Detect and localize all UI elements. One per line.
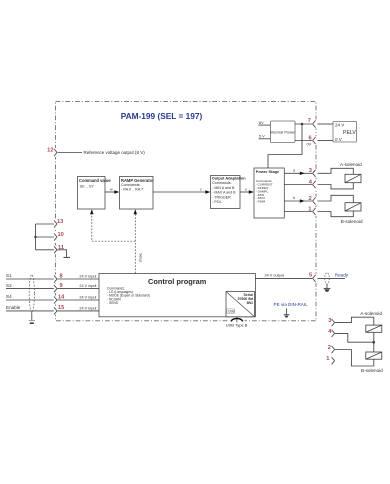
svg-text:USB: USB xyxy=(228,310,235,314)
svg-text:24 V input: 24 V input xyxy=(79,275,97,279)
pin 1 xyxy=(308,206,315,215)
input shield ground xyxy=(29,313,35,324)
svg-text:12: 12 xyxy=(47,148,53,154)
wire Ready output xyxy=(318,273,349,279)
svg-text:3: 3 xyxy=(328,318,331,324)
svg-text:Commands:: Commands: xyxy=(212,181,231,185)
svg-text:B-solenoid: B-solenoid xyxy=(341,219,363,224)
input wire Enable xyxy=(6,305,99,311)
wire reference voltage pin 12 xyxy=(58,150,146,155)
wire pin 6 to PELV box xyxy=(318,140,334,142)
A-solenoid coil xyxy=(345,174,361,182)
dashed config line to RAMP xyxy=(134,209,143,273)
svg-text:c: c xyxy=(200,187,202,191)
external jumper bracket pins 13-10-11 xyxy=(36,224,54,250)
pin 13 xyxy=(54,219,63,228)
pin 4 xyxy=(309,179,316,188)
svg-text:Output Adaptation: Output Adaptation xyxy=(212,175,247,180)
svg-text:15: 15 xyxy=(58,305,64,311)
wire command value to ramp xyxy=(105,187,119,193)
block Control program xyxy=(99,274,255,317)
junction dot 24V xyxy=(301,123,304,126)
wire loop to A-solenoid top xyxy=(318,168,354,174)
wire internal power to pin 6 xyxy=(295,141,312,147)
block Command value xyxy=(78,177,112,210)
svg-text:0 V: 0 V xyxy=(335,137,342,142)
dashed config branch to Command value xyxy=(90,209,135,241)
pin 11 xyxy=(54,245,64,254)
svg-text:0V: 0V xyxy=(307,142,312,146)
svg-text:- RA:0 .. RA:7: - RA:0 .. RA:7 xyxy=(121,187,143,191)
alt A-solenoid coil xyxy=(366,325,382,332)
pin 7 xyxy=(308,118,316,128)
wire power stage return B- to pin 1 xyxy=(284,211,312,213)
svg-text:PAM-199 (SEL = 197): PAM-199 (SEL = 197) xyxy=(121,111,203,121)
wire internal power to pin 7 xyxy=(295,123,312,125)
svg-text:Command value: Command value xyxy=(79,178,111,183)
wire ramp to output adaptation xyxy=(153,187,210,193)
svg-text:3: 3 xyxy=(309,168,312,174)
svg-text:- MAX A and B: - MAX A and B xyxy=(212,191,236,195)
block Output Adaptation xyxy=(211,175,247,208)
svg-text:Enable: Enable xyxy=(6,305,21,310)
wire pin 7 to PELV box xyxy=(318,123,334,125)
svg-text:- PWM: - PWM xyxy=(256,200,266,204)
input wire S2 xyxy=(6,283,99,289)
block Power Stage xyxy=(254,168,284,218)
alt B-solenoid coil xyxy=(366,352,382,359)
pin 9 xyxy=(54,283,63,292)
USB serial sub-block xyxy=(226,292,255,317)
svg-text:- TRIGGER: - TRIGGER xyxy=(212,195,231,199)
alt junction dot xyxy=(373,341,376,344)
internal power stub 5V xyxy=(259,135,271,139)
internal power stub 8V xyxy=(259,121,271,125)
svg-text:a: a xyxy=(293,168,295,172)
alt section pin 1 unconnected xyxy=(326,356,334,364)
svg-text:S4: S4 xyxy=(6,294,12,299)
svg-text:1: 1 xyxy=(308,206,311,212)
svg-text:7: 7 xyxy=(308,118,311,124)
svg-text:14: 14 xyxy=(58,294,65,300)
svg-text:2: 2 xyxy=(328,345,331,351)
svg-text:8V: 8V xyxy=(259,121,264,125)
ready shield ellipse xyxy=(325,273,330,284)
alt section pin 4 xyxy=(328,329,334,337)
svg-text:USB Type B: USB Type B xyxy=(226,323,248,328)
pin 12 xyxy=(47,148,57,157)
svg-text:9: 9 xyxy=(60,283,63,289)
wire loop to B-solenoid top xyxy=(318,195,354,202)
svg-text:b: b xyxy=(293,196,295,200)
alt wire pin 4 to junction xyxy=(335,333,374,342)
USB cable pass-through arc xyxy=(226,317,248,328)
pin 3 xyxy=(309,168,316,177)
block RAMP Generator xyxy=(120,177,155,210)
alt wire pin 3 to A-solenoid xyxy=(335,317,374,325)
pin 11 internal ground xyxy=(57,250,70,258)
svg-text:S0 .. S7: S0 .. S7 xyxy=(80,184,95,189)
svg-text:8N1: 8N1 xyxy=(247,301,253,305)
wire power stage output B+ to pin 2 xyxy=(284,196,312,203)
B-solenoid coil xyxy=(345,203,361,211)
block PELV supply xyxy=(333,122,357,143)
ready shield ground xyxy=(324,284,331,292)
svg-text:Setup: Setup xyxy=(139,253,143,262)
svg-text:- MIN A and B: - MIN A and B xyxy=(212,186,235,190)
svg-text:8: 8 xyxy=(60,273,63,279)
wire output adaptation to power stage xyxy=(240,187,254,193)
wire loop from B-solenoid bottom xyxy=(318,211,354,217)
svg-text:24 V input: 24 V input xyxy=(79,307,97,311)
alt section pin 2 xyxy=(328,345,335,353)
svg-text:A-solenoid: A-solenoid xyxy=(340,162,362,167)
svg-text:Ready: Ready xyxy=(335,273,349,278)
pin 5 xyxy=(309,272,316,282)
svg-text:u: u xyxy=(245,187,247,191)
svg-text:24 V: 24 V xyxy=(335,122,344,127)
alt wire B bottom loop to pin 2 xyxy=(335,350,374,367)
svg-text:PELV: PELV xyxy=(343,130,356,136)
junction dot on bracket xyxy=(34,236,36,238)
svg-text:RAMP Generator: RAMP Generator xyxy=(121,178,154,183)
svg-text:A-solenoid: A-solenoid xyxy=(360,311,382,316)
PE earth symbol xyxy=(284,309,290,318)
svg-text:Reference voltage output (8 V): Reference voltage output (8 V) xyxy=(84,150,146,155)
pin 10 xyxy=(54,232,64,241)
title PAM-199 xyxy=(121,111,203,121)
pin 2 xyxy=(309,196,316,205)
svg-text:Internal Power: Internal Power xyxy=(270,129,296,134)
svg-text:PE via DIN-RAIL: PE via DIN-RAIL xyxy=(274,302,309,307)
pin 14 xyxy=(54,294,65,303)
pin gap masks on frame xyxy=(53,120,319,324)
svg-text:Power Stage: Power Stage xyxy=(256,169,280,174)
input wire S1 xyxy=(6,273,99,279)
svg-text:S2: S2 xyxy=(6,283,12,288)
svg-text:- SENS: - SENS xyxy=(107,301,119,305)
svg-text:5 V: 5 V xyxy=(259,135,265,139)
svg-text:5: 5 xyxy=(309,272,312,278)
svg-text:10: 10 xyxy=(58,232,64,238)
svg-text:Control program: Control program xyxy=(148,277,207,286)
block Internal Power xyxy=(270,121,296,143)
svg-text:1: 1 xyxy=(326,356,329,362)
svg-text:w: w xyxy=(110,187,113,191)
wire 24V feed down to power stage xyxy=(268,124,302,168)
wire power stage return A- to pin 4 xyxy=(284,184,312,186)
svg-text:S1: S1 xyxy=(6,273,12,278)
input cable shield ellipse xyxy=(29,275,34,313)
pin 15 xyxy=(54,305,64,314)
svg-text:13: 13 xyxy=(57,219,63,225)
svg-text:24 V output: 24 V output xyxy=(265,274,285,278)
pin 6 xyxy=(309,135,316,144)
svg-text:6: 6 xyxy=(309,135,312,141)
wire 24V output to pin 5 xyxy=(255,274,312,279)
svg-text:2: 2 xyxy=(309,196,312,202)
module boundary dashed frame xyxy=(56,102,317,321)
pin 8 xyxy=(54,273,63,282)
alt wire A bottom to junction to B top xyxy=(373,332,375,352)
wire loop from A-solenoid bottom xyxy=(318,183,354,189)
svg-text:- POL: - POL xyxy=(212,200,221,204)
svg-text:24 V input: 24 V input xyxy=(79,296,97,300)
wire power stage output A+ to pin 3 xyxy=(284,168,312,175)
svg-text:24 V input: 24 V input xyxy=(79,284,97,288)
alt section pin 3 xyxy=(328,318,334,326)
input wire S4 xyxy=(6,294,99,300)
svg-text:B-solenoid: B-solenoid xyxy=(361,368,383,373)
